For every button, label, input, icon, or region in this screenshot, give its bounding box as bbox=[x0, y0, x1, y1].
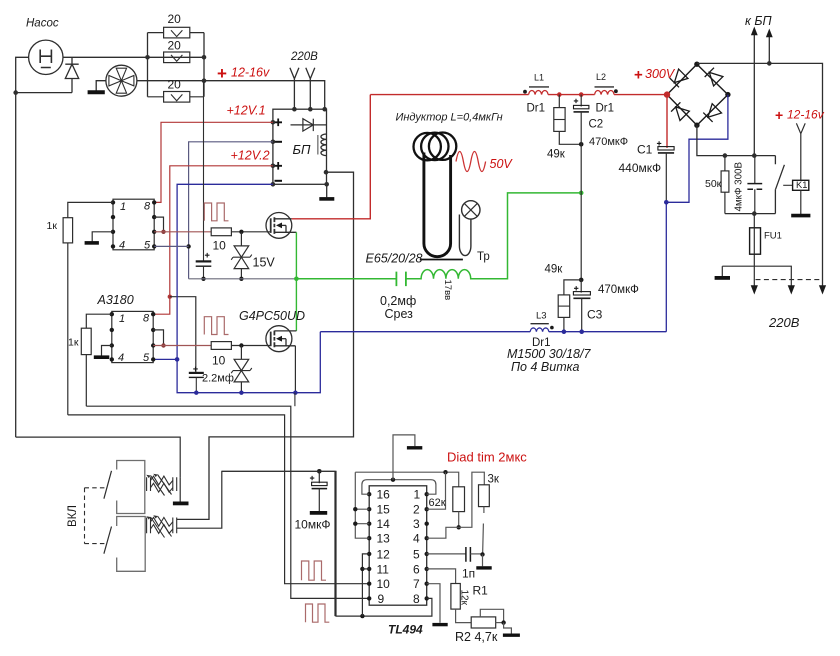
svg-text:5: 5 bbox=[143, 352, 150, 364]
node 50k top bbox=[723, 153, 728, 158]
node FU1 top bbox=[752, 211, 757, 216]
wire gate row 1 red bbox=[154, 231, 211, 233]
PSU box БП bbox=[273, 109, 327, 184]
squarewave glyph 2 bbox=[204, 317, 228, 335]
terminal - bbox=[275, 180, 283, 182]
wire fan left lead bbox=[96, 81, 106, 91]
svg-text:R1: R1 bbox=[473, 584, 489, 598]
svg-text:470мкФ: 470мкФ bbox=[589, 136, 628, 148]
node zener2 top bbox=[239, 343, 243, 347]
svg-text:G4PC50UD: G4PC50UD bbox=[239, 309, 305, 323]
wire pin9 net bbox=[86, 406, 369, 598]
opto-driver U2 box bbox=[112, 311, 153, 362]
induction coil turns bbox=[414, 133, 457, 161]
svg-text:220В: 220В bbox=[290, 51, 318, 63]
wire blue return2 PSU bottom to IC2 pin5 bbox=[177, 184, 320, 392]
svg-text:4мкФ 300В: 4мкФ 300В bbox=[734, 162, 745, 212]
wire blue riser to bottom bus bbox=[665, 202, 667, 331]
ground R2 bbox=[504, 623, 512, 634]
arrow down 2 bbox=[788, 285, 795, 294]
svg-text:+: + bbox=[217, 64, 227, 83]
node 1n/3k bbox=[480, 552, 484, 556]
svg-text:E65/20/28: E65/20/28 bbox=[366, 252, 423, 266]
node cap4 top bbox=[752, 153, 757, 158]
wire left bus bottom run bbox=[16, 437, 181, 477]
node kBP right bbox=[767, 61, 772, 66]
ground U2 pin3 bbox=[102, 346, 112, 357]
svg-text:1п: 1п bbox=[462, 567, 475, 581]
node zener1 top bbox=[239, 230, 243, 234]
svg-text:12-16v: 12-16v bbox=[231, 66, 270, 80]
node U1 pin5 bbox=[186, 244, 190, 248]
resistor 49k upper bbox=[558, 95, 560, 108]
svg-text:10: 10 bbox=[212, 354, 226, 368]
transformer winding inside PSU bbox=[317, 135, 319, 155]
wire gate 1 to MOSFET bbox=[231, 231, 270, 233]
resistor 50k bbox=[724, 156, 726, 171]
resistor R 20 #1 bbox=[148, 27, 205, 38]
fan motor bbox=[106, 65, 137, 96]
node cap2 on blue rail bbox=[194, 391, 198, 395]
wire 1k2 to U2 pin1 bbox=[86, 314, 112, 328]
switch lever upper bbox=[104, 471, 112, 499]
arrow down 1 bbox=[751, 285, 758, 294]
squarewave glyph 4 bbox=[306, 604, 330, 622]
cap 4uF 300V bbox=[754, 156, 756, 184]
bridge diode top-left bbox=[670, 69, 688, 87]
cap C1 bbox=[658, 147, 674, 153]
wire green half-bridge node bbox=[295, 232, 297, 331]
node PSU right tap bbox=[324, 170, 329, 175]
node PSU pin3 bbox=[271, 164, 276, 169]
node pump row / resistor bus right bbox=[202, 55, 207, 60]
wire K1 row bottom bbox=[725, 213, 776, 215]
svg-text:5: 5 bbox=[144, 240, 151, 252]
node pin12 riser on bus bbox=[360, 614, 364, 618]
svg-text:3: 3 bbox=[413, 517, 420, 531]
switch block lower bbox=[117, 517, 146, 572]
svg-text:13: 13 bbox=[377, 532, 391, 546]
capacitor 0,2mf green bbox=[396, 272, 406, 287]
wire pin8 bottom bus bbox=[222, 471, 432, 616]
node 10uF top bbox=[317, 469, 322, 474]
dashed 220V line bbox=[756, 279, 823, 281]
svg-text:FU1: FU1 bbox=[764, 231, 782, 242]
svg-text:к БП: к БП bbox=[745, 14, 773, 28]
node C3 bottom bbox=[579, 329, 584, 334]
U1 pin dots bbox=[111, 200, 157, 248]
svg-text:9: 9 bbox=[378, 592, 385, 606]
svg-text:1к: 1к bbox=[68, 337, 79, 349]
cap C3 bbox=[580, 280, 582, 293]
svg-text:+: + bbox=[775, 107, 783, 123]
svg-text:8: 8 bbox=[413, 592, 420, 606]
220V input fork right bbox=[306, 68, 315, 109]
svg-text:12-16v: 12-16v bbox=[787, 108, 825, 122]
fuse FU1 bbox=[753, 214, 755, 288]
node cap on rail bbox=[201, 277, 205, 281]
ground upper network bbox=[179, 477, 181, 502]
wire bus A top bbox=[355, 472, 458, 487]
ground 10uF bbox=[310, 511, 327, 515]
svg-text:7: 7 bbox=[413, 577, 420, 591]
bridge diode bottom-right bbox=[703, 104, 721, 122]
svg-text:Dr1: Dr1 bbox=[527, 103, 546, 115]
motor M1 pump bbox=[29, 40, 63, 74]
choke L3 blue bbox=[530, 328, 549, 332]
wire 3k bottom gapped bbox=[483, 507, 484, 555]
svg-text:БП: БП bbox=[293, 142, 311, 157]
resistor 49k lower bbox=[564, 280, 581, 295]
bridge diode bottom-left bbox=[671, 102, 689, 120]
cap 2.2uF bbox=[189, 373, 204, 378]
node PSU pin2 bbox=[271, 140, 276, 145]
resistor R 20 #3 bbox=[148, 92, 205, 103]
node PSU pin1 bbox=[271, 120, 276, 125]
node bus/diode row bbox=[13, 90, 18, 95]
node zener2 on blue rail bbox=[239, 391, 243, 395]
wire red +12V.1 to IC1 pin8 bbox=[154, 122, 273, 202]
svg-text:4: 4 bbox=[119, 240, 125, 252]
cap C4 bootstrap upper bbox=[203, 81, 205, 261]
svg-text:20: 20 bbox=[168, 39, 182, 53]
svg-text:17вв: 17вв bbox=[442, 280, 453, 301]
svg-text:8: 8 bbox=[143, 313, 150, 325]
TL494 box bbox=[369, 486, 427, 605]
node loop top bbox=[391, 478, 395, 482]
wire pump top row bbox=[63, 56, 204, 58]
node green rail bbox=[294, 277, 299, 282]
terminal + (12V.2) bbox=[275, 162, 283, 170]
svg-text:1к: 1к bbox=[47, 220, 58, 232]
wire gate 2 to MOSFET bbox=[231, 345, 270, 347]
node rail/resistor bus bbox=[202, 78, 207, 83]
svg-text:440мкФ: 440мкФ bbox=[619, 161, 662, 175]
cap 1n bbox=[466, 547, 471, 562]
wire 62k row to 3k bbox=[459, 472, 485, 527]
sine wave 50V bbox=[456, 152, 486, 172]
svg-text:2: 2 bbox=[413, 503, 420, 517]
wire green output row bbox=[296, 278, 396, 280]
svg-text:220В: 220В bbox=[768, 315, 800, 330]
node pin2 riser bbox=[443, 470, 447, 474]
resistor 10 lower bbox=[211, 342, 231, 350]
node R2 right bbox=[501, 620, 505, 624]
cap C2 bbox=[580, 95, 582, 107]
wire contact to K1 bbox=[783, 184, 792, 186]
wire R1 to R2 bbox=[456, 609, 472, 623]
wire pin5 row bbox=[427, 553, 466, 555]
svg-text:R2 4,7к: R2 4,7к bbox=[455, 630, 498, 644]
wire 62k to pin4 bbox=[427, 527, 459, 538]
svg-text:12: 12 bbox=[377, 547, 391, 561]
choke L2 bbox=[595, 90, 615, 94]
wire blue bus right bbox=[549, 331, 667, 333]
node PSU top right bbox=[322, 107, 327, 112]
wire C1 bottom bbox=[665, 153, 667, 202]
terminal + (12V.1) bbox=[275, 119, 283, 127]
svg-text:TL494: TL494 bbox=[388, 623, 423, 637]
node gate row 2 bbox=[161, 343, 165, 347]
R2 wiper bbox=[480, 609, 503, 622]
svg-text:62к: 62к bbox=[429, 497, 446, 509]
induction coil hairpin bbox=[424, 153, 451, 257]
ground TL494 top bbox=[407, 446, 422, 449]
wire lower network out to 10uF net bbox=[177, 471, 335, 616]
node green to C2 column bbox=[579, 191, 584, 196]
node 49k top bbox=[557, 92, 562, 97]
arrow down 3 bbox=[819, 285, 826, 294]
svg-text:+12V.1: +12V.1 bbox=[227, 104, 266, 118]
svg-text:М1500 30/18/7: М1500 30/18/7 bbox=[507, 347, 591, 361]
wire red drain Q1 bbox=[292, 95, 371, 219]
lamp on sense loop bbox=[462, 201, 480, 219]
node 62k bottom bbox=[457, 525, 461, 529]
resistor R 1k upper bbox=[63, 218, 73, 243]
MOSFET Q1 bbox=[266, 213, 296, 239]
zener pair VD1 15V bbox=[231, 232, 252, 279]
svg-text:Индуктор L=0,4мкГн: Индуктор L=0,4мкГн bbox=[396, 112, 503, 124]
resistor 10 upper bbox=[211, 228, 231, 236]
diode inside PSU bbox=[291, 119, 327, 131]
wire red +12V.2 to IC2 pin8 bbox=[153, 166, 273, 314]
ground 1n bbox=[482, 554, 484, 566]
wire pin1-pin16 loop bbox=[362, 480, 436, 495]
wire blue stub to pin9 line bbox=[294, 393, 296, 407]
wire left bus bbox=[16, 57, 29, 437]
bridge diode top-right bbox=[705, 68, 723, 86]
svg-text:4: 4 bbox=[413, 532, 420, 546]
node PSU pin4 bbox=[271, 182, 276, 187]
svg-text:20: 20 bbox=[168, 78, 182, 92]
wire +12-16v rail fan to PSU bbox=[137, 81, 325, 110]
svg-text:16: 16 bbox=[377, 488, 391, 502]
wire +12V.2 branch to cap 2.2uF bbox=[170, 297, 196, 373]
TL494 pin dots bbox=[367, 492, 429, 601]
wire pin2 jog bbox=[427, 472, 446, 509]
wire 1k to U1 pin1 bbox=[68, 202, 113, 217]
fork +12-16v bbox=[796, 123, 805, 180]
photo-resistor network upper bbox=[147, 475, 177, 496]
svg-text:10: 10 bbox=[213, 239, 227, 253]
wire rail L2 to bridge bbox=[614, 94, 667, 96]
wire 1k2 bottom down bbox=[85, 355, 87, 407]
wire bridge minus blue bbox=[666, 95, 728, 203]
svg-text:49к: 49к bbox=[547, 149, 566, 161]
matching inductor 17 turns green bbox=[406, 193, 581, 279]
TL494 pin labels left bbox=[377, 488, 391, 606]
wire blue bottom bus bbox=[320, 331, 530, 333]
node PSU top mid bbox=[308, 107, 313, 112]
node C2 top bbox=[579, 92, 584, 97]
node blue IC2 pin5 bbox=[175, 357, 180, 362]
node pump row / resistor bus left bbox=[145, 55, 150, 60]
wire AC out row bbox=[722, 266, 791, 287]
wire upper common rail bbox=[189, 278, 297, 280]
wire 1k bottom down bbox=[67, 243, 69, 415]
node PSU top left bbox=[292, 107, 297, 112]
switch lever lower bbox=[104, 527, 112, 554]
svg-text:C2: C2 bbox=[589, 119, 604, 131]
node +12V.2 branch bbox=[168, 295, 172, 299]
node C2 col / 49k2 bbox=[579, 278, 584, 283]
cap 10uF bbox=[318, 471, 320, 483]
wire pin10 net bbox=[68, 415, 369, 584]
svg-text:10: 10 bbox=[377, 577, 391, 591]
svg-text:20: 20 bbox=[168, 12, 182, 26]
wire IC2 pin5 stub bbox=[153, 358, 177, 360]
k BP arrow right bbox=[768, 36, 770, 63]
sense loop Tp bbox=[459, 215, 471, 256]
ground fan bbox=[88, 90, 105, 94]
squarewave glyph 3 bbox=[302, 561, 326, 580]
220V input fork left bbox=[290, 68, 299, 109]
wire pin6 to R1 bbox=[427, 569, 456, 584]
pot R2 4,7k bbox=[471, 617, 496, 628]
wire rail L1-L2 bbox=[548, 94, 595, 96]
resistor R 1k lower bbox=[81, 328, 91, 354]
U2 pin dots bbox=[110, 312, 156, 362]
MOSFET Q2 bbox=[266, 326, 297, 352]
svg-text:0,2мф: 0,2мф bbox=[380, 294, 416, 308]
svg-text:C3: C3 bbox=[587, 308, 603, 322]
svg-text:5: 5 bbox=[413, 547, 420, 561]
resistor R 20 #2 bbox=[164, 52, 190, 63]
bus A pins 13/14/15 bbox=[355, 472, 369, 538]
svg-text:12к: 12к bbox=[459, 590, 470, 606]
wire loop to ground bbox=[393, 435, 415, 480]
dashed mech link bbox=[85, 488, 105, 544]
wire diode bottom row bbox=[16, 92, 72, 94]
svg-text:+: + bbox=[634, 67, 643, 84]
svg-text:Тр: Тр bbox=[477, 251, 490, 263]
diode D1 across pump bbox=[65, 57, 78, 92]
bridge diamond bbox=[667, 64, 728, 125]
svg-text:Dr1: Dr1 bbox=[596, 103, 615, 115]
svg-text:8: 8 bbox=[144, 201, 151, 213]
wire bridge plus to C1 bbox=[666, 95, 668, 148]
squarewave glyph 1 bbox=[204, 203, 228, 221]
node 49k bottom bbox=[579, 142, 584, 147]
wire return1 to IC1 pin5 rail bbox=[189, 142, 273, 279]
svg-text:11: 11 bbox=[377, 562, 390, 576]
svg-text:1: 1 bbox=[119, 313, 125, 325]
wire pin7 ground bbox=[427, 584, 440, 623]
svg-text:470мкФ: 470мкФ bbox=[598, 284, 639, 296]
node C1/blue bbox=[664, 200, 669, 205]
wire resistor bank buses bbox=[148, 33, 205, 97]
resistor R1 12k bbox=[451, 584, 460, 610]
svg-text:L1: L1 bbox=[534, 73, 544, 83]
svg-text:49к: 49к bbox=[545, 264, 564, 276]
svg-text:ВКЛ: ВКЛ bbox=[67, 505, 79, 527]
svg-text:6: 6 bbox=[413, 562, 420, 576]
bridge corner nodes bbox=[694, 61, 730, 127]
svg-text:50к: 50к bbox=[705, 178, 722, 190]
wire gate row 2 red bbox=[153, 345, 211, 347]
svg-text:1: 1 bbox=[120, 201, 126, 213]
svg-text:3к: 3к bbox=[488, 474, 500, 486]
svg-text:Насос: Насос bbox=[26, 18, 59, 30]
svg-text:2.2мф: 2.2мф bbox=[202, 373, 234, 385]
svg-text:По 4 Витка: По 4 Витка bbox=[511, 360, 580, 374]
wire red rail to L1 bbox=[370, 94, 528, 96]
svg-text:K1: K1 bbox=[796, 180, 807, 190]
svg-text:A3180: A3180 bbox=[97, 293, 134, 307]
opto-driver U1 box bbox=[113, 199, 154, 250]
svg-text:14: 14 bbox=[377, 517, 391, 531]
wire bridge top to AC right bbox=[697, 63, 823, 287]
wire PSU tap to ground bus riser bbox=[177, 172, 354, 519]
wire bridge bottom to K1 row bbox=[697, 125, 776, 155]
ground AC left bbox=[721, 266, 723, 276]
k BP arrow left bbox=[753, 34, 755, 156]
resistor 3k bbox=[479, 485, 490, 507]
node 49k2 bottom bbox=[562, 329, 567, 334]
svg-text:C1: C1 bbox=[637, 143, 653, 157]
relay coil box K1 bbox=[793, 180, 809, 190]
photo-resistor network lower bbox=[147, 516, 177, 538]
svg-text:1: 1 bbox=[414, 488, 421, 502]
switch block upper bbox=[117, 461, 145, 514]
resistor 62k bbox=[453, 487, 465, 512]
svg-text:L2: L2 bbox=[596, 72, 606, 82]
node Q2 source on rail bbox=[293, 391, 297, 395]
svg-text:Diad tim 2мкс: Diad tim 2мкс bbox=[447, 450, 527, 465]
zener pair VD2 bbox=[231, 346, 252, 393]
svg-text:L3: L3 bbox=[536, 311, 547, 322]
node zener1 on rail bbox=[239, 277, 243, 281]
motor H mark bbox=[40, 50, 51, 68]
ground U1 pin3 bbox=[92, 232, 113, 243]
wire Q2 source to blue rail bbox=[294, 346, 296, 393]
svg-text:15: 15 bbox=[377, 503, 391, 517]
wire U1 pin5 stub bbox=[154, 245, 188, 247]
wire pin12/11 riser bbox=[362, 554, 369, 616]
ground K1 bbox=[800, 190, 802, 214]
wire U1 pin7 jog bbox=[154, 217, 163, 232]
node PSU bottom bbox=[324, 182, 329, 187]
svg-text:+12V.2: +12V.2 bbox=[231, 149, 270, 163]
svg-text:10мкФ: 10мкФ bbox=[295, 518, 331, 532]
relay contact bbox=[775, 156, 784, 214]
wire U2 pin7 jog bbox=[153, 330, 163, 346]
svg-text:15V: 15V bbox=[253, 256, 276, 270]
ground PSU bbox=[326, 184, 328, 197]
choke L1 bbox=[529, 90, 549, 94]
workpiece baseline bbox=[420, 259, 463, 261]
terminal - bbox=[275, 141, 283, 143]
TL494 pin labels right bbox=[413, 488, 421, 606]
svg-text:50V: 50V bbox=[490, 157, 514, 171]
svg-text:4: 4 bbox=[118, 352, 124, 364]
node gate row 1 bbox=[161, 230, 165, 234]
svg-text:Срез: Срез bbox=[385, 307, 414, 321]
